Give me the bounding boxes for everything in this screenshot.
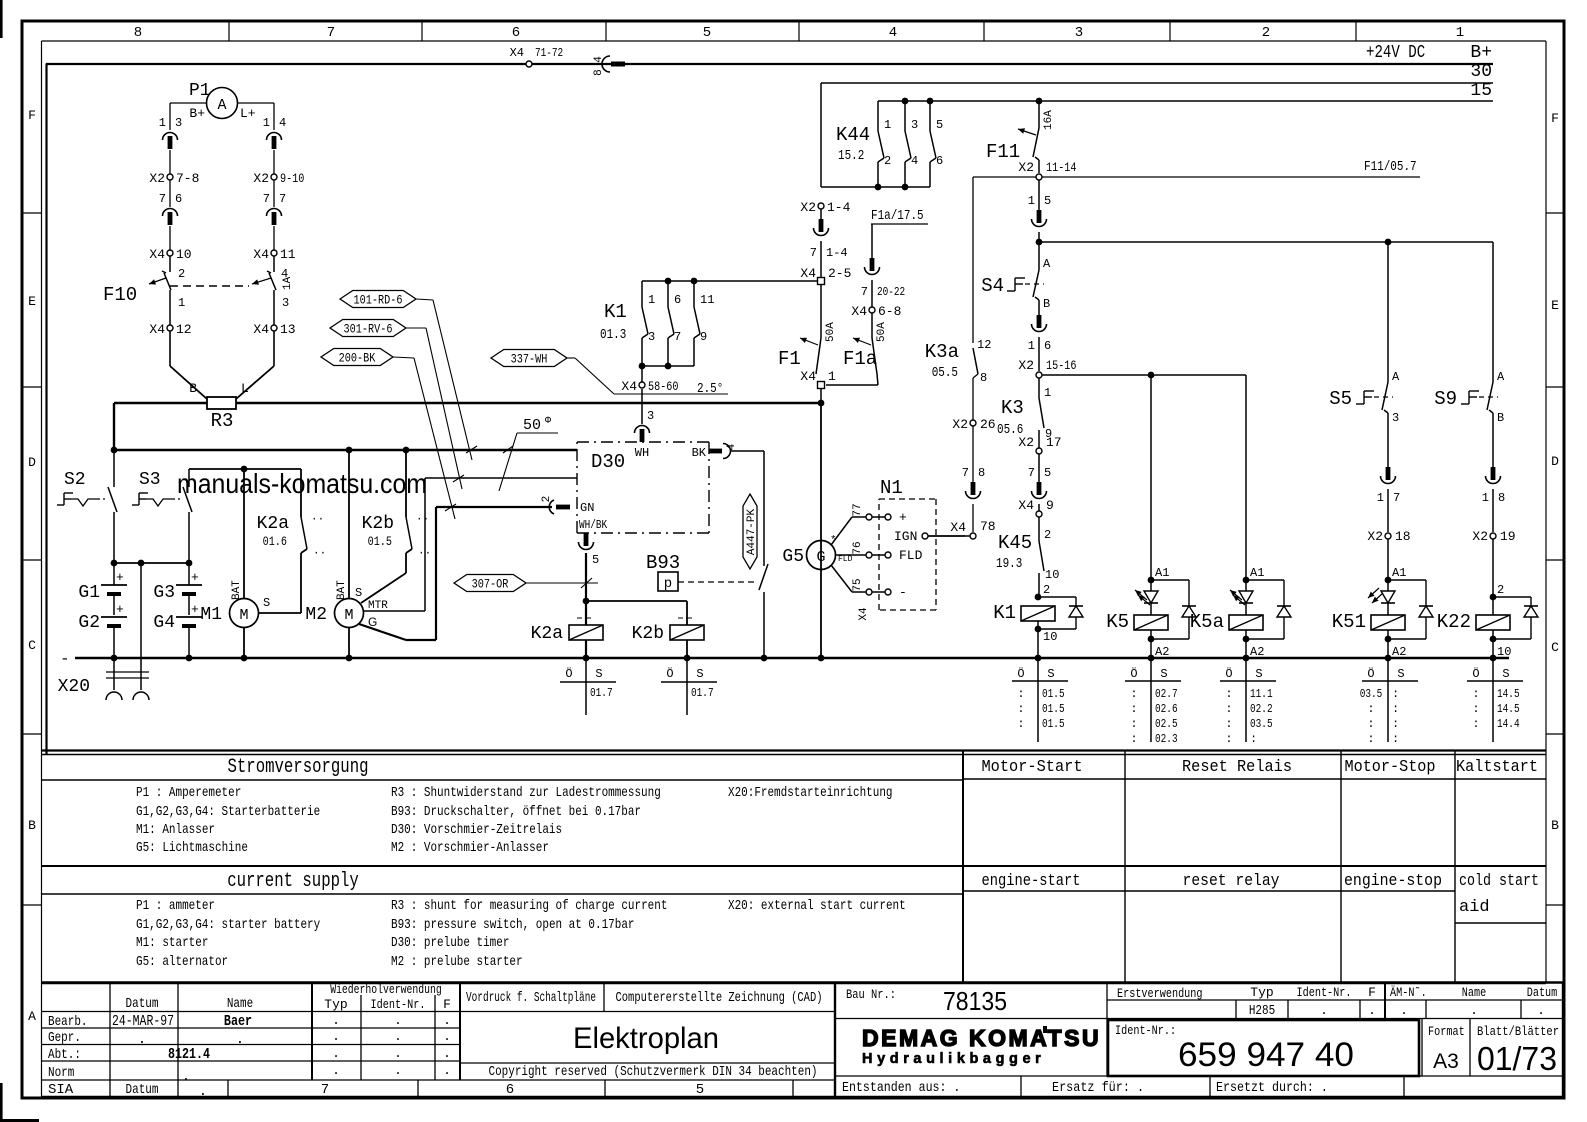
svg-text:58-60: 58-60: [648, 379, 679, 394]
svg-text:3: 3: [1392, 411, 1399, 425]
svg-text:.: .: [332, 1029, 340, 1044]
D30 terminal GN connector 2: [541, 496, 594, 515]
svg-text:Name: Name: [1462, 985, 1486, 1000]
legend german text: [136, 785, 893, 856]
svg-text:1: 1: [1456, 25, 1464, 41]
svg-text:G3: G3: [153, 583, 175, 603]
svg-text:2-5: 2-5: [828, 266, 851, 281]
wire label 101-RD-6: [340, 291, 477, 461]
svg-text:6: 6: [1044, 339, 1051, 353]
resistor R3 shunt: [207, 397, 236, 432]
svg-text:K1: K1: [993, 602, 1016, 624]
svg-text:10: 10: [1045, 568, 1059, 582]
svg-text:2: 2: [178, 267, 185, 281]
connector 7|1-4: [810, 209, 848, 260]
svg-text:B93: Druckschalter, öffnet bei: B93: Druckschalter, öffnet bei 0.17bar: [391, 804, 641, 820]
wire to X2 9-10: [273, 150, 275, 174]
svg-text:Bau Nr.:: Bau Nr.:: [846, 987, 896, 1002]
svg-text:50: 50: [523, 417, 541, 434]
svg-text:1: 1: [1377, 491, 1384, 505]
svg-text:M: M: [344, 607, 353, 624]
relay coil K2a: [531, 618, 603, 658]
svg-text:.: .: [443, 1029, 451, 1044]
svg-text:X4: X4: [800, 266, 816, 281]
svg-text:7: 7: [321, 1082, 329, 1098]
wire R3 bus line: [114, 403, 822, 450]
svg-text:15-16: 15-16: [1046, 358, 1077, 373]
svg-text::: :: [1130, 702, 1137, 716]
svg-text:X2: X2: [800, 200, 816, 215]
wire K5/K5a feed: [1042, 372, 1246, 379]
svg-text:X20: external start current: X20: external start current: [728, 898, 906, 914]
svg-text:Computererstellte Zeichnung (C: Computererstellte Zeichnung (CAD): [616, 990, 823, 1006]
svg-text:X2: X2: [1018, 358, 1034, 373]
prelube starter M2: [305, 450, 388, 658]
svg-text:50A: 50A: [825, 322, 837, 342]
contact K3 (05.6): [997, 378, 1052, 448]
crossref table K5: [1125, 658, 1181, 746]
crossref table K51: [1360, 658, 1418, 746]
svg-text:+: +: [191, 570, 199, 585]
svg-text:78: 78: [980, 519, 996, 534]
svg-text::: :: [1017, 687, 1024, 701]
connector 7|8: [962, 426, 985, 499]
connector X2 19: [1472, 489, 1515, 597]
svg-text:Ö: Ö: [1017, 667, 1024, 681]
svg-text:8 4: 8 4: [593, 56, 605, 76]
svg-text::: :: [1367, 717, 1374, 731]
svg-text:WH: WH: [635, 446, 649, 460]
svg-text:F: F: [443, 997, 451, 1012]
svg-text:71-72: 71-72: [535, 46, 563, 60]
demag komatsu logo: [862, 1025, 1101, 1067]
svg-text:Ö: Ö: [666, 667, 673, 681]
svg-text:A: A: [1043, 257, 1051, 271]
svg-text:M1: starter: M1: starter: [136, 935, 208, 951]
svg-text:5: 5: [696, 1082, 704, 1098]
svg-text:X4: X4: [800, 369, 816, 384]
wire bus battery feed: [111, 447, 577, 454]
svg-text:+: +: [191, 602, 199, 617]
svg-text:+: +: [116, 602, 124, 617]
svg-text::: :: [1392, 702, 1399, 716]
svg-text:Elektroplan: Elektroplan: [573, 1022, 719, 1055]
svg-text:BAT: BAT: [231, 580, 243, 600]
svg-text:6: 6: [936, 154, 943, 168]
connector X4 6-8: [851, 280, 901, 319]
wire G5 terminal 76 FLD: [836, 541, 923, 563]
svg-text:X2: X2: [253, 171, 269, 186]
svg-text:2: 2: [1044, 528, 1051, 542]
svg-text:7: 7: [159, 192, 166, 206]
svg-text:engine-start: engine-start: [982, 872, 1081, 891]
svg-text:Vordruck f. Schaltpläne: Vordruck f. Schaltpläne: [466, 990, 596, 1006]
svg-text:M2 : Vorschmier-Anlasser: M2 : Vorschmier-Anlasser: [391, 840, 549, 856]
regulator N1 box: [879, 477, 936, 610]
svg-text:19.3: 19.3: [996, 556, 1022, 572]
connector X4 58-60: [621, 366, 723, 397]
svg-text:S2: S2: [64, 470, 86, 490]
connector X2 1-4: [800, 200, 850, 215]
wire B+ rail +24V DC: [46, 43, 1493, 64]
svg-text:B+: B+: [1470, 43, 1492, 63]
svg-text:K5a: K5a: [1190, 611, 1224, 633]
svg-text:B+: B+: [189, 106, 205, 121]
svg-text:X20:Fremdstarteinrichtung: X20:Fremdstarteinrichtung: [728, 785, 893, 801]
svg-text:IGN: IGN: [894, 529, 917, 544]
switch S2: [57, 450, 117, 563]
svg-text:4: 4: [279, 116, 286, 130]
svg-text:200-BK: 200-BK: [339, 351, 376, 366]
svg-text:8: 8: [1498, 491, 1505, 505]
svg-text:5: 5: [1044, 466, 1051, 480]
svg-text:03.5: 03.5: [1250, 717, 1273, 731]
connector X2 7-8: [149, 171, 199, 186]
svg-text:12: 12: [176, 322, 192, 337]
svg-text:K5: K5: [1106, 611, 1129, 633]
svg-text:K2b: K2b: [632, 624, 664, 644]
svg-text:Wiederholverwendung: Wiederholverwendung: [330, 983, 442, 997]
relay coil K51 with LED: [1332, 566, 1433, 659]
fuse F1 50A: [778, 285, 837, 374]
svg-text:7: 7: [674, 330, 681, 344]
svg-text:9: 9: [700, 330, 707, 344]
svg-text:+: +: [116, 570, 124, 585]
svg-text:Reset Relais: Reset Relais: [1182, 758, 1292, 777]
connector X2 11-14: [1018, 160, 1076, 180]
svg-text:12: 12: [977, 338, 991, 352]
svg-text:A1: A1: [1155, 566, 1169, 580]
svg-text:05.5: 05.5: [932, 365, 958, 381]
svg-text:4: 4: [911, 154, 918, 168]
svg-text:2: 2: [884, 154, 891, 168]
format cell: [1428, 1024, 1465, 1073]
relay coil K22: [1437, 583, 1538, 659]
svg-text:02.2: 02.2: [1250, 702, 1273, 716]
legend header Stromversorgung: [228, 756, 369, 779]
svg-text:F11: F11: [986, 141, 1020, 163]
connector X4 1: [800, 369, 836, 389]
svg-text:+24V DC: +24V DC: [1366, 43, 1425, 63]
junction F1 output: [818, 389, 825, 406]
svg-text:4: 4: [889, 25, 897, 41]
svg-text:A: A: [217, 97, 226, 114]
switch S9: [1434, 242, 1505, 425]
vordruck header: [466, 990, 823, 1006]
function headers english: [982, 872, 1540, 917]
svg-text:X2: X2: [952, 417, 968, 432]
svg-text:Entstanden aus: .: Entstanden aus: .: [842, 1080, 960, 1096]
svg-text:K1: K1: [604, 301, 627, 323]
D30 terminal WH connector 3: [635, 389, 655, 460]
svg-text:G4: G4: [153, 613, 175, 633]
svg-text:Motor-Stop: Motor-Stop: [1345, 758, 1436, 777]
svg-text:1: 1: [263, 116, 270, 130]
svg-text::: :: [1367, 732, 1374, 746]
svg-text::: :: [1130, 717, 1137, 731]
svg-text:P1 : ammeter: P1 : ammeter: [136, 898, 215, 914]
svg-text::: :: [1130, 687, 1137, 701]
svg-text:.: .: [394, 1046, 402, 1061]
svg-text:7: 7: [810, 246, 817, 260]
svg-text:Ö: Ö: [565, 667, 572, 681]
svg-text:X2: X2: [1367, 529, 1383, 544]
svg-text:Hydraulikbagger: Hydraulikbagger: [862, 1051, 1045, 1067]
svg-text:X4: X4: [858, 607, 870, 621]
bau nr: [846, 986, 1007, 1016]
wire M2 G to D30 GN: [359, 507, 552, 640]
svg-text:F11/05.7: F11/05.7: [1364, 159, 1417, 175]
alternator G5: [782, 535, 852, 570]
fuse switch F10: [103, 256, 294, 325]
contact K2b: [361, 450, 431, 603]
svg-text:B: B: [1043, 297, 1050, 311]
crossref table K2a: [560, 658, 616, 715]
connector X2 15-16: [1018, 337, 1076, 378]
wire to X2 7-8: [169, 150, 171, 174]
svg-text:S: S: [1047, 667, 1054, 681]
svg-text:11: 11: [280, 247, 296, 262]
connector 1|4: [263, 116, 286, 149]
wire G5 terminal 77: [831, 503, 907, 545]
svg-text:X4: X4: [851, 304, 867, 319]
svg-text:19: 19: [1500, 529, 1516, 544]
wire P1 left lead: [170, 103, 206, 130]
svg-text:10: 10: [176, 247, 192, 262]
connector 7|6: [159, 180, 182, 225]
svg-text:2: 2: [541, 496, 553, 503]
svg-text:1: 1: [828, 369, 836, 384]
svg-text:+: +: [899, 510, 907, 525]
svg-text:.: .: [332, 1046, 340, 1061]
svg-text:50A: 50A: [876, 322, 888, 342]
prelube timer D30: [577, 442, 709, 533]
svg-text:Ersetzt durch: .: Ersetzt durch: .: [1216, 1080, 1328, 1096]
title block left labels: [48, 996, 253, 1100]
svg-text:Ö: Ö: [1472, 667, 1479, 681]
svg-text:M2 : prelube starter: M2 : prelube starter: [391, 954, 523, 970]
svg-text::: :: [1250, 732, 1257, 746]
svg-text:Stromversorgung: Stromversorgung: [228, 756, 369, 779]
wire S5/S9 feed: [1036, 232, 1493, 245]
svg-text:.: .: [1537, 1003, 1545, 1018]
svg-text:X2: X2: [1018, 160, 1034, 175]
svg-text:G5: Lichtmaschine: G5: Lichtmaschine: [136, 840, 248, 856]
svg-text:76: 76: [852, 541, 864, 554]
svg-text:Norm: Norm: [48, 1065, 74, 1081]
svg-text:F10: F10: [103, 284, 137, 306]
wire F1 junction down to G5 and 0V: [820, 403, 822, 658]
svg-text:S: S: [263, 596, 270, 610]
svg-text:3: 3: [647, 409, 654, 423]
svg-text:7: 7: [861, 285, 868, 299]
svg-text:1A: 1A: [282, 276, 294, 290]
svg-text:L: L: [241, 381, 249, 396]
svg-text:.: .: [394, 1029, 402, 1044]
svg-text:X4: X4: [149, 247, 165, 262]
wire G5 terminal 75: [831, 565, 907, 621]
svg-text:.: .: [394, 1063, 402, 1078]
svg-text:cold start: cold start: [1459, 872, 1539, 891]
svg-text:301-RV-6: 301-RV-6: [344, 322, 393, 337]
svg-text::: :: [1472, 717, 1479, 731]
svg-text:A1: A1: [1250, 566, 1264, 580]
svg-text:Ident-Nr.: Ident-Nr.: [371, 997, 426, 1012]
svg-text:.: .: [443, 1046, 451, 1061]
svg-text:H285: H285: [1249, 1003, 1275, 1019]
wire 30-rail to K44: [820, 83, 822, 187]
svg-text:8: 8: [980, 371, 987, 385]
svg-text:reset relay: reset relay: [1183, 872, 1280, 891]
connector 1|3: [159, 116, 182, 149]
svg-text:01.7: 01.7: [691, 686, 714, 700]
connector X4 78: [928, 504, 996, 539]
svg-text:p: p: [664, 576, 672, 592]
svg-text:2: 2: [1043, 583, 1050, 597]
svg-text:F1a/17.5: F1a/17.5: [871, 208, 924, 224]
switch S4: [981, 242, 1051, 315]
D30 terminal WH/BK connector 5: [579, 518, 608, 567]
svg-text:01.6: 01.6: [263, 534, 287, 549]
svg-text:D: D: [1551, 454, 1559, 469]
svg-text:Format: Format: [1428, 1024, 1465, 1039]
watermark: [177, 468, 427, 499]
svg-text:1: 1: [1028, 339, 1035, 353]
svg-text:10: 10: [1043, 630, 1057, 644]
svg-text:F: F: [1551, 111, 1559, 126]
connector X20 external start: [58, 563, 149, 700]
wire M2 MTR to D30: [363, 478, 577, 611]
svg-text:9-10: 9-10: [280, 171, 304, 186]
svg-text:Datum: Datum: [126, 996, 159, 1012]
svg-text:··: ··: [416, 514, 429, 526]
svg-text:.: .: [236, 1032, 244, 1048]
svg-text::: :: [1472, 687, 1479, 701]
svg-text:M: M: [239, 607, 248, 624]
svg-text:D30: prelube timer: D30: prelube timer: [391, 935, 509, 951]
svg-text:Ö: Ö: [1225, 667, 1232, 681]
svg-text:K3: K3: [1001, 397, 1024, 419]
wiederholverwendung box: [324, 983, 451, 1078]
wire 0V bus: [60, 650, 1509, 668]
svg-text:X20: X20: [58, 677, 90, 697]
svg-text:1: 1: [159, 116, 166, 130]
svg-text:D30: Vorschmier-Zeitrelais: D30: Vorschmier-Zeitrelais: [391, 822, 562, 838]
svg-text:R3: R3: [211, 410, 234, 432]
svg-text:Ident-Nr.:: Ident-Nr.:: [1115, 1023, 1176, 1038]
wire to X4 10: [169, 226, 171, 250]
svg-text:11: 11: [700, 293, 714, 307]
svg-text:X2: X2: [149, 171, 165, 186]
connector 8|4 on B+ rail: [593, 56, 625, 76]
svg-text:3: 3: [648, 330, 655, 344]
svg-text::: :: [1225, 732, 1232, 746]
svg-text:DEMAG KOMATSU: DEMAG KOMATSU: [862, 1025, 1101, 1051]
svg-text:1: 1: [648, 293, 655, 307]
svg-text:.: .: [1368, 1003, 1376, 1018]
svg-text:K51: K51: [1332, 611, 1366, 633]
svg-text:101-RD-6: 101-RD-6: [354, 293, 403, 308]
svg-text:2: 2: [1497, 583, 1504, 597]
svg-text:13: 13: [280, 322, 296, 337]
crossref table K1: [1012, 658, 1068, 742]
fuse reference F1a/17.5: [871, 208, 928, 224]
svg-text:A: A: [1392, 370, 1400, 384]
svg-text:··: ··: [313, 548, 326, 560]
svg-text:B: B: [1497, 411, 1504, 425]
svg-text:6: 6: [674, 293, 681, 307]
svg-text:24-MAR-97: 24-MAR-97: [112, 1013, 174, 1030]
svg-text:1-4: 1-4: [826, 246, 848, 260]
svg-text:S: S: [1160, 667, 1167, 681]
svg-text:Abt.:: Abt.:: [48, 1047, 81, 1063]
svg-text:-: -: [899, 585, 907, 600]
svg-text:02.3: 02.3: [1155, 732, 1178, 746]
svg-text:ÄM-N˜.: ÄM-N˜.: [1390, 985, 1427, 1000]
svg-text:F: F: [28, 108, 36, 123]
svg-text:11-14: 11-14: [1046, 160, 1077, 175]
svg-text:X4: X4: [149, 322, 165, 337]
svg-text:B93: pressure switch, open at: B93: pressure switch, open at 0.17bar: [391, 917, 635, 933]
wire label 200-BK: [321, 349, 456, 520]
svg-text:02.6: 02.6: [1155, 702, 1178, 716]
svg-text:M1: M1: [200, 605, 222, 625]
battery G3 G4: [153, 563, 202, 658]
svg-text:F: F: [1368, 985, 1376, 1000]
svg-text:2.5°: 2.5°: [697, 381, 723, 397]
connector 1|6: [1028, 315, 1051, 353]
svg-text:2: 2: [1262, 25, 1270, 41]
wire label 337-WH: [491, 350, 728, 395]
svg-text:C: C: [28, 638, 36, 653]
contact K2a: [257, 469, 327, 613]
svg-text:Copyright reserved (Schutzverm: Copyright reserved (Schutzvermerk DIN 34…: [489, 1064, 818, 1080]
svg-text:K44: K44: [836, 124, 870, 146]
svg-text:17: 17: [1046, 435, 1062, 450]
svg-text::: :: [1225, 687, 1232, 701]
svg-text:5: 5: [592, 553, 599, 567]
svg-text:307-OR: 307-OR: [472, 577, 509, 592]
svg-text:L+: L+: [240, 106, 256, 121]
svg-text:X4: X4: [253, 322, 269, 337]
svg-text:6-8: 6-8: [878, 304, 901, 319]
svg-text:3: 3: [282, 296, 289, 310]
svg-text:SIA: SIA: [48, 1082, 74, 1098]
svg-text:S9: S9: [1434, 388, 1457, 410]
svg-text:03.5: 03.5: [1360, 687, 1383, 701]
svg-text:659 947 40: 659 947 40: [1178, 1036, 1354, 1074]
switch S5: [1329, 242, 1400, 425]
diode K1: [993, 583, 1083, 658]
svg-text:GN: GN: [580, 501, 594, 515]
svg-text:Motor-Start: Motor-Start: [982, 758, 1083, 777]
svg-text:Datum: Datum: [1527, 985, 1558, 1000]
crossref table K22: [1467, 658, 1523, 742]
svg-text:26: 26: [980, 417, 996, 432]
svg-text:M2: M2: [305, 605, 327, 625]
svg-text:16A: 16A: [1043, 110, 1055, 130]
ident nr: [1115, 1023, 1354, 1074]
erstverwendung header: [1117, 985, 1557, 1019]
svg-text:Name: Name: [227, 996, 253, 1012]
svg-text::: :: [1392, 732, 1399, 746]
connector 7|7: [263, 180, 286, 225]
svg-text:S5: S5: [1329, 388, 1352, 410]
svg-text:20-22: 20-22: [877, 285, 905, 299]
svg-text:A: A: [1497, 370, 1505, 384]
svg-text:6: 6: [506, 1082, 514, 1098]
svg-text:engine-stop: engine-stop: [1344, 872, 1442, 891]
